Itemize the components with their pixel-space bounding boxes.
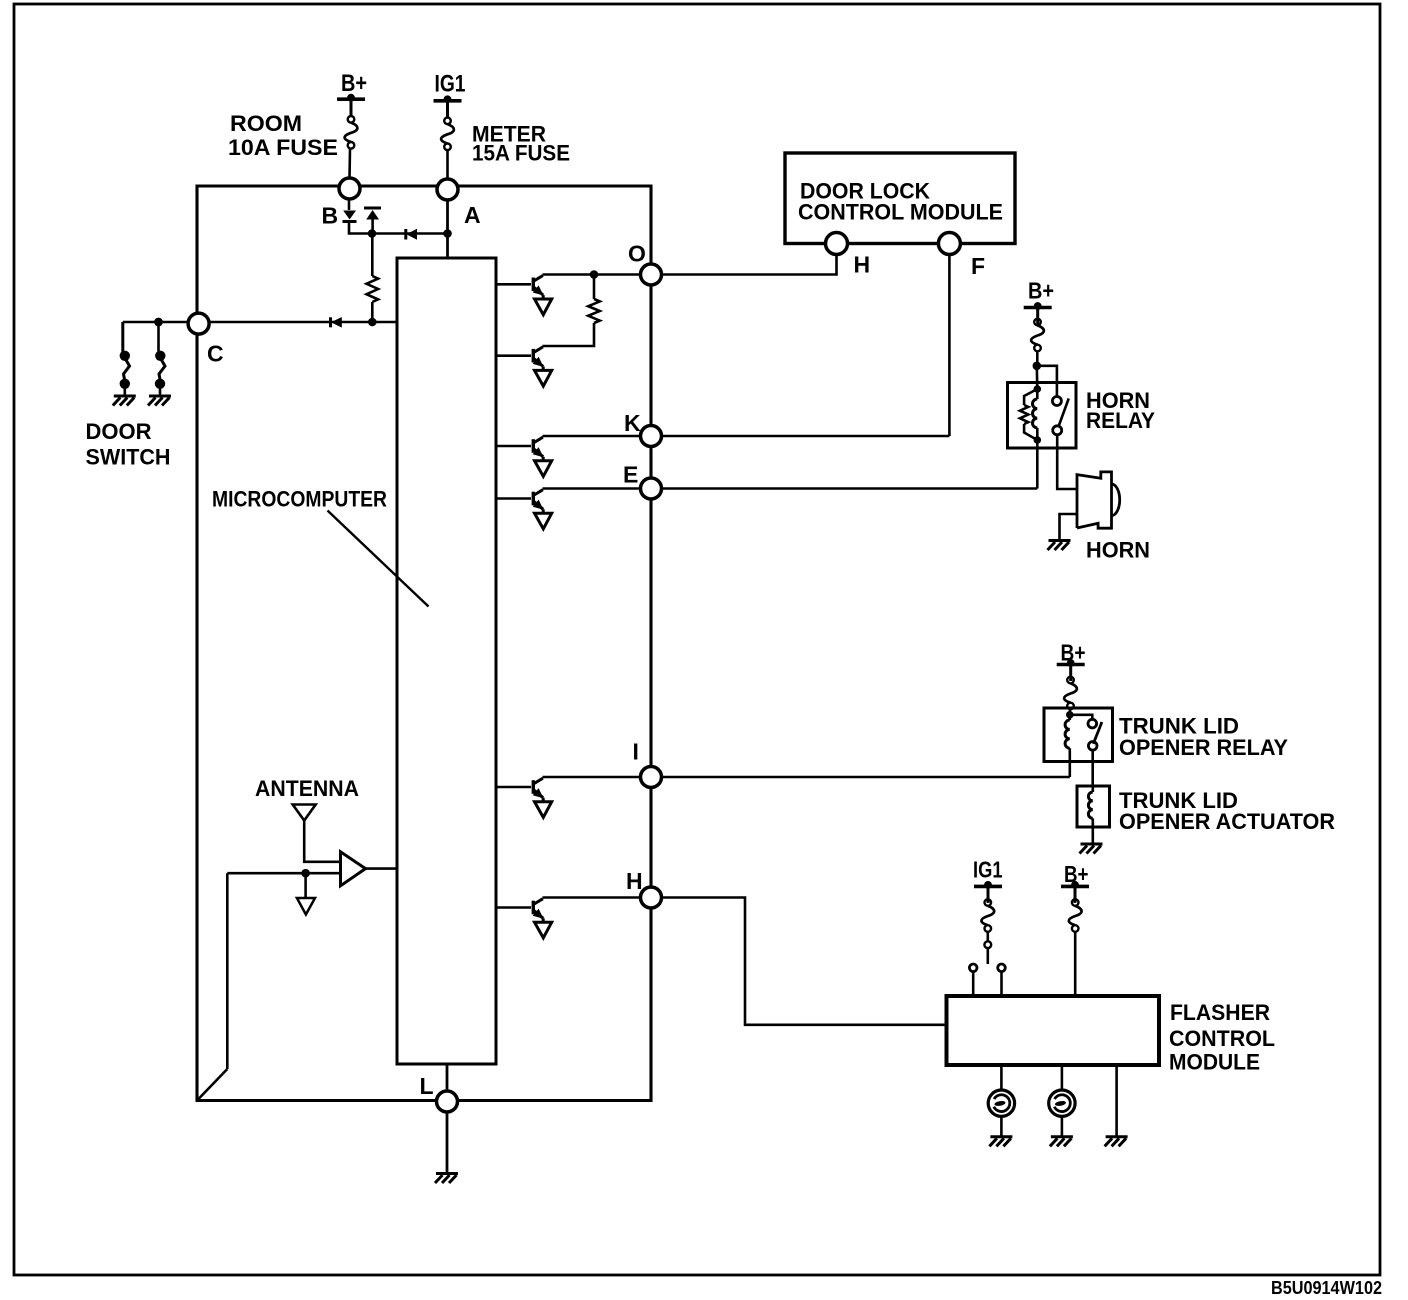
pin H of door lock module (826, 233, 848, 255)
svg-text:C: C (207, 341, 224, 367)
node R2 top on O line (590, 270, 599, 279)
svg-text:FLASHER: FLASHER (1170, 1000, 1270, 1025)
antenna symbol (293, 805, 316, 821)
svg-text:H: H (854, 252, 871, 278)
wire base Q2 (496, 354, 531, 357)
svg-text:CONTROL MODULE: CONTROL MODULE (798, 200, 1003, 225)
horn speaker symbol (1077, 472, 1112, 528)
trunk actuator coil (1092, 786, 1095, 792)
wire base Q3 (496, 445, 531, 448)
wire pin A down into microcomputer (446, 200, 449, 258)
svg-text:B+: B+ (341, 70, 367, 97)
trunk relay switch lever (1093, 722, 1102, 744)
B+ terminal (trunk relay) (1057, 663, 1085, 667)
node at right door switch (154, 318, 163, 327)
ground right door switch (149, 395, 171, 398)
transistor Q4 (532, 492, 535, 506)
wire pin B down to diode D1 (348, 199, 351, 211)
trunk relay coil top node (1066, 711, 1074, 719)
microcomputer box (397, 258, 496, 1064)
svg-text:OPENER RELAY: OPENER RELAY (1119, 735, 1288, 760)
wire flasher ground lead (1115, 1065, 1118, 1136)
trunk actuator box (1077, 786, 1110, 827)
lamp 1 (turn signal) (988, 1090, 1014, 1116)
diode D2 (pointing up) above node J1 (364, 207, 381, 210)
wire pin L to ground (446, 1112, 449, 1173)
svg-text:OPENER ACTUATOR: OPENER ACTUATOR (1119, 809, 1335, 834)
wire flasher to lamp 1 (1000, 1065, 1003, 1090)
wire fuse to pin A (446, 150, 449, 179)
resistor R1 (367, 276, 379, 302)
keyless unit box outline (197, 186, 651, 1101)
svg-text:10A FUSE: 10A FUSE (228, 135, 338, 160)
connector terminal on IG1 wire (984, 941, 991, 948)
pin O (641, 264, 662, 285)
svg-text:MODULE: MODULE (1169, 1050, 1260, 1075)
wire node to trunk relay switch (1070, 715, 1093, 719)
wire left loop down to unit box corner (226, 873, 229, 1069)
wire node to resistor R2 (593, 275, 596, 300)
svg-text:B+: B+ (1064, 861, 1089, 887)
svg-text:IG1: IG1 (973, 857, 1003, 883)
svg-text:A: A (464, 202, 481, 228)
wire J4 to horn relay switch (1037, 366, 1057, 397)
B+ terminal (room fuse) (337, 97, 365, 101)
wire J1 to J2 with diode D3 (372, 232, 448, 235)
wire J1 down to resistor R1 (371, 234, 374, 277)
trunk relay coil (1069, 715, 1072, 720)
wire feedback into amplifier (227, 872, 340, 875)
svg-text:B+: B+ (1028, 278, 1054, 304)
leader line to microcomputer (328, 511, 429, 607)
wire D1 to corner to node J1 (349, 223, 372, 234)
wire base Q6 (496, 906, 531, 909)
wire pin E to horn relay coil (651, 487, 1037, 490)
IG1 terminal (meter fuse) (434, 99, 462, 103)
wire Q6 collector to pin H (543, 896, 652, 899)
wire below IG1 connector (986, 948, 989, 964)
wire down to left door switch (121, 322, 124, 352)
horn relay box (1008, 383, 1077, 449)
node J2 on A line (443, 229, 452, 238)
transistor Q6 (532, 901, 535, 915)
lamp 2 (turn signal) (1049, 1090, 1075, 1116)
diode D3 (pointing left) (404, 229, 407, 240)
wire fuse to pin B (348, 149, 351, 179)
pin B (339, 178, 360, 199)
wire pin O to door lock module pin H (651, 254, 837, 275)
svg-text:SWITCH: SWITCH (86, 445, 171, 470)
wire node to ground triangle (304, 873, 307, 898)
flasher connector prong right (998, 964, 1006, 972)
wire Q5 collector to pin I (543, 776, 652, 779)
wire base Q5 (496, 786, 531, 789)
svg-text:15A FUSE: 15A FUSE (472, 141, 570, 166)
horn relay switch lever (1059, 399, 1069, 427)
wire flasher to lamp 2 (1061, 1065, 1064, 1090)
horn relay resistor branch (1024, 389, 1037, 405)
ground pin L (436, 1172, 458, 1175)
svg-text:I: I (633, 739, 639, 765)
svg-text:B: B (322, 203, 339, 229)
right door switch (155, 351, 165, 361)
fuse flasher IG1 (985, 899, 992, 906)
pin I (641, 767, 662, 788)
B+ terminal (horn relay) (1024, 306, 1052, 310)
node J4 (1033, 362, 1042, 371)
B+ terminal (flasher) (1061, 885, 1089, 889)
pin K (641, 426, 662, 447)
wire flasher B+ down (1074, 932, 1077, 997)
svg-text:HORN: HORN (1086, 538, 1150, 563)
wire door lock module pin F down (948, 254, 951, 436)
ground triangle (antenna) (297, 898, 315, 915)
node J1 (368, 229, 377, 238)
svg-text:MICROCOMPUTER: MICROCOMPUTER (212, 487, 387, 512)
wire door switches to pin C (123, 321, 189, 324)
diode D1 (from B, pointing down) (343, 211, 356, 220)
node antenna ground stub (301, 869, 310, 878)
ground flasher module (1106, 1135, 1128, 1138)
diode D4 (pointing left) (329, 317, 332, 327)
wire pin H to flasher module (651, 898, 947, 1025)
wire antenna to amplifier (304, 821, 340, 862)
svg-text:H: H (626, 868, 643, 894)
svg-text:CONTROL: CONTROL (1169, 1026, 1275, 1051)
wire pin I to trunk relay coil (651, 776, 1070, 779)
transistor Q3 (532, 439, 535, 453)
wire horn relay switch to horn (1057, 435, 1076, 489)
fuse flasher B+ (1072, 899, 1079, 906)
door lock control module box (785, 153, 1015, 244)
horn relay coil top node (1034, 385, 1042, 393)
pin C (188, 313, 209, 334)
transistor Q2 (532, 349, 535, 363)
fuse horn relay B+ (1034, 319, 1041, 326)
wire flasher IG1 to connector (986, 932, 989, 942)
svg-text:ANTENNA: ANTENNA (255, 776, 359, 801)
pin L (437, 1091, 458, 1112)
node J3 (368, 318, 377, 327)
amplifier U1 (341, 852, 366, 886)
flasher connector prong left (969, 964, 977, 972)
wire pin K to door lock module pin F (651, 435, 949, 438)
svg-text:ROOM: ROOM (230, 111, 302, 136)
horn relay coil bottom node (1034, 436, 1042, 444)
wire fuse to node J4 (1036, 351, 1039, 366)
ground lamp 1 (990, 1135, 1012, 1138)
horn relay coil (1036, 389, 1039, 399)
svg-text:RELAY: RELAY (1086, 408, 1155, 433)
wire base Q1 (496, 283, 531, 286)
svg-text:L: L (420, 1073, 434, 1099)
svg-text:O: O (628, 241, 646, 267)
svg-text:F: F (971, 253, 985, 279)
transistor Q5 (532, 780, 535, 794)
wire base Q4 (496, 497, 531, 500)
trunk relay box (1044, 708, 1113, 762)
svg-text:B5U0914W102: B5U0914W102 (1271, 1278, 1382, 1298)
pin E (641, 478, 662, 499)
wire pin C to microcomputer with diode D4 (209, 321, 397, 324)
wire lamp 2 to ground (1061, 1116, 1064, 1135)
ground lamp 2 (1051, 1135, 1073, 1138)
wire microcomputer to pin L (446, 1064, 449, 1091)
wire lamp 1 to ground (1000, 1116, 1003, 1135)
IG1 terminal (flasher) (974, 885, 1002, 889)
transistor Q1 (532, 278, 535, 292)
ground trunk actuator (1081, 843, 1103, 846)
wire trunk relay switch to actuator (1091, 750, 1094, 786)
wire Q4 collector to pin E (543, 487, 652, 490)
svg-text:K: K (624, 410, 641, 436)
trunk relay switch contacts (1088, 719, 1097, 728)
wire horn relay coil to E line (1036, 440, 1039, 489)
fuse METER 15A (444, 118, 451, 125)
left door switch (120, 351, 130, 361)
wire R1 to node J3 (371, 302, 374, 322)
wire horn to ground (1060, 514, 1078, 540)
svg-text:DOOR: DOOR (86, 419, 152, 444)
svg-text:IG1: IG1 (435, 71, 466, 98)
fuse trunk relay B+ (1067, 677, 1074, 684)
wire amplifier to microcomputer (366, 867, 398, 870)
wire Q3 collector to pin K (543, 435, 652, 438)
fuse ROOM 10A (348, 116, 355, 123)
svg-text:E: E (623, 462, 638, 488)
ground horn (1049, 539, 1071, 542)
svg-text:B+: B+ (1061, 640, 1086, 666)
pin A (437, 179, 458, 200)
wire fuse into trunk relay (1069, 709, 1072, 715)
ground left door switch (114, 395, 136, 398)
flasher control module box (947, 996, 1160, 1065)
wire down to right door switch (157, 322, 160, 352)
pin F of door lock module (938, 233, 960, 255)
wire J4 into relay coil (1036, 366, 1039, 389)
resistor R2 (588, 299, 600, 323)
wire Q1 collector to pin O (543, 273, 652, 276)
wire R2 to Q2 collector (543, 323, 595, 346)
pin H (641, 887, 662, 908)
horn relay switch contacts (1052, 397, 1061, 406)
